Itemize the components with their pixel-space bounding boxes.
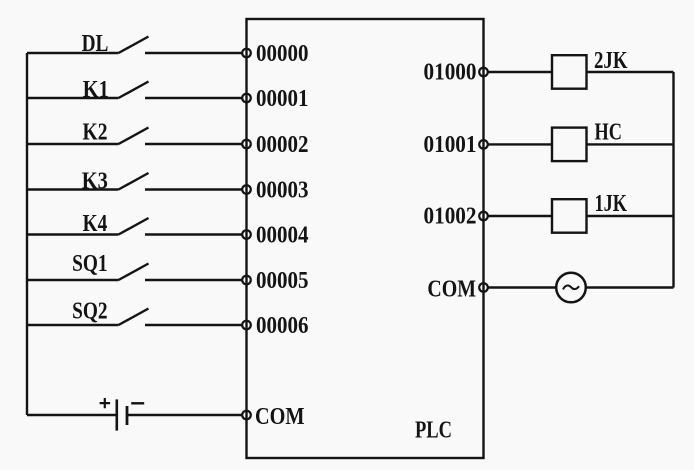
wire coil 1JK to right bus	[587, 215, 674, 217]
wire input row K2 right segment	[145, 143, 242, 145]
wire COM output to AC source	[488, 286, 556, 288]
svg-text:1JK: 1JK	[595, 191, 628, 217]
terminal node 00002	[242, 140, 251, 149]
wire battery right segment	[127, 414, 242, 416]
switch K2	[119, 128, 149, 145]
AC source G1	[556, 273, 586, 303]
wire input row SQ2 left segment	[27, 324, 119, 326]
wire output 01002 to coil	[488, 215, 552, 217]
svg-text:COM: COM	[255, 404, 305, 430]
battery B1 negative plate	[126, 406, 129, 425]
battery B1 positive plate	[116, 399, 119, 430]
wire right output bus	[672, 72, 674, 288]
svg-text:K3: K3	[82, 169, 108, 195]
wire input row SQ1 left segment	[27, 279, 119, 281]
switch SQ1	[119, 264, 149, 281]
wire input row K1 left segment	[27, 97, 119, 99]
svg-text:SQ1: SQ1	[72, 251, 108, 277]
svg-text:00001: 00001	[256, 86, 309, 112]
svg-text:SQ2: SQ2	[72, 299, 108, 325]
relay coil 1JK	[552, 199, 587, 233]
svg-text:K2: K2	[83, 120, 108, 146]
svg-text:COM: COM	[427, 276, 476, 302]
wire left input bus	[26, 53, 28, 415]
terminal node 00001	[242, 94, 251, 103]
wire input row K3 left segment	[27, 188, 119, 190]
terminal node COM input	[242, 411, 251, 420]
wire output 01001 to coil	[488, 143, 552, 145]
wire input row K1 right segment	[145, 97, 242, 99]
wire input row DL right segment	[145, 52, 242, 54]
wire input row K4 left segment	[27, 233, 119, 235]
label -	[131, 402, 144, 404]
wire input row K2 left segment	[27, 143, 119, 145]
switch K4	[119, 218, 149, 235]
terminal node COM output	[479, 283, 488, 292]
wire AC source to right bus	[586, 286, 674, 288]
wire coil 2JK to right bus	[587, 71, 674, 73]
switch SQ2	[119, 309, 149, 326]
switch K1	[119, 82, 149, 99]
svg-text:00002: 00002	[256, 132, 309, 158]
relay coil HC	[552, 128, 587, 162]
PLC U1 body	[247, 19, 484, 458]
svg-text:00003: 00003	[256, 178, 309, 204]
wire input row SQ1 right segment	[145, 279, 242, 281]
terminal node 00000	[242, 49, 251, 58]
wire output 01000 to coil	[488, 71, 552, 73]
terminal node 01000	[479, 68, 488, 77]
svg-text:00005: 00005	[256, 268, 309, 294]
wire input row SQ2 right segment	[145, 324, 242, 326]
svg-text:PLC: PLC	[415, 418, 452, 444]
wire input row K3 right segment	[145, 188, 242, 190]
terminal node 00005	[242, 276, 251, 285]
svg-text:2JK: 2JK	[594, 48, 628, 74]
wire battery left segment	[27, 414, 117, 416]
wire input row DL left segment	[27, 52, 119, 54]
svg-text:01002: 01002	[424, 204, 477, 230]
svg-text:K4: K4	[83, 211, 108, 237]
svg-text:00000: 00000	[256, 41, 309, 67]
label +	[100, 398, 111, 408]
svg-text:00006: 00006	[256, 313, 309, 339]
svg-text:01000: 01000	[424, 60, 477, 86]
terminal node 00006	[242, 321, 251, 330]
svg-text:HC: HC	[595, 119, 623, 145]
relay coil 2JK	[552, 55, 587, 88]
terminal node 01002	[479, 212, 488, 221]
terminal node 01001	[479, 140, 488, 149]
switch K3	[119, 173, 149, 190]
svg-text:01001: 01001	[424, 132, 477, 158]
svg-text:K1: K1	[83, 77, 109, 103]
svg-text:00004: 00004	[256, 223, 309, 249]
terminal node 00004	[242, 230, 251, 239]
wire input row K4 right segment	[145, 233, 242, 235]
svg-text:DL: DL	[82, 31, 109, 57]
wire coil HC to right bus	[587, 143, 674, 145]
terminal node 00003	[242, 185, 251, 194]
switch DL	[119, 37, 149, 54]
